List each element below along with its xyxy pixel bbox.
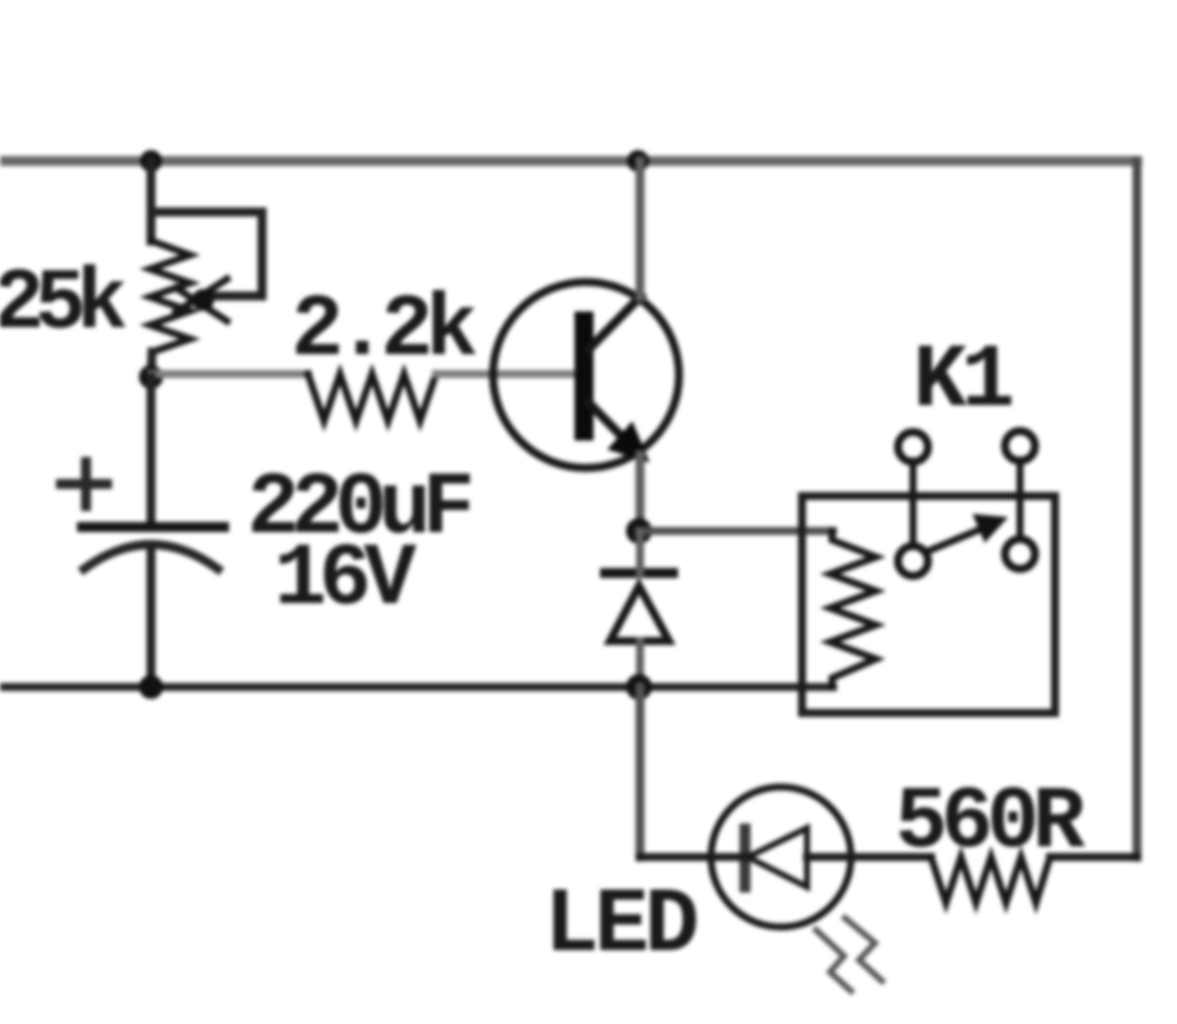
transistor emitter arrowhead [609, 423, 648, 461]
wire bottom rail [0, 683, 833, 691]
relay contact left inner [898, 546, 928, 576]
wire right rail [1133, 161, 1142, 857]
svg-text:2.2k: 2.2k [291, 282, 476, 381]
svg-text:K1: K1 [913, 331, 1012, 433]
node pot bottom junction [139, 365, 163, 389]
wire through LED [714, 853, 745, 861]
relay coil zigzag [830, 531, 876, 687]
relay pole right lead [1017, 460, 1024, 540]
wire diode leads [636, 531, 644, 573]
node junction top at collector wire [627, 150, 649, 172]
wire emitter down to diode node [636, 455, 645, 531]
node capacitor-ground junction [139, 675, 163, 699]
wire capacitor bottom lead [147, 545, 156, 687]
node junction top-left at pot [140, 150, 162, 172]
capacitor 220uF curved plate [84, 545, 218, 570]
transistor emitter line [589, 403, 636, 451]
LED light ray 2 [845, 918, 882, 981]
relay terminal right [1005, 431, 1035, 461]
svg-text:16V: 16V [274, 531, 417, 630]
svg-text:25k: 25k [0, 255, 126, 353]
wire rheostat loop [151, 212, 262, 296]
wire pot top lead [147, 161, 156, 241]
relay switch arrowhead [974, 515, 1006, 541]
transistor base bar [575, 321, 594, 431]
wire LED branch horizontal [640, 853, 714, 861]
LED light ray 1 [816, 930, 851, 991]
capacitor 220uF plus sign [61, 462, 107, 506]
node diode bottom junction [626, 674, 652, 700]
potentiometer 25k body [150, 241, 190, 352]
wire base wire from pot to resistor [151, 370, 308, 378]
resistor 560R [931, 857, 1050, 903]
capacitor 220uF top plate [82, 522, 224, 532]
resistor 2.2k [308, 374, 436, 421]
wire top rail [0, 156, 1137, 166]
wire capacitor top lead [147, 377, 156, 527]
LED triangle [748, 828, 807, 887]
transistor Q1 circle [493, 282, 679, 468]
potentiometer wiper arrow [176, 279, 227, 321]
transistor collector line [589, 296, 641, 349]
relay K1 box [802, 496, 1055, 713]
diode D1 triangle [610, 586, 669, 641]
wire base wire from resistor to transistor [436, 370, 578, 378]
relay pole left lead [910, 461, 917, 547]
relay terminal left [898, 432, 928, 462]
LED cathode bar [740, 829, 751, 887]
wire pot bottom lead [151, 352, 152, 377]
relay switch arm [926, 526, 988, 552]
wire collector to top rail [636, 161, 645, 297]
svg-text:LED: LED [544, 873, 696, 978]
diode D1 cathode bar [605, 568, 673, 578]
wire resistor to right rail [1050, 853, 1137, 861]
relay contact right inner [1005, 539, 1035, 569]
wire LED branch vertical [636, 687, 645, 857]
wire node to relay coil top [639, 527, 833, 535]
node diode top junction [626, 518, 652, 544]
LED circle [711, 787, 851, 927]
